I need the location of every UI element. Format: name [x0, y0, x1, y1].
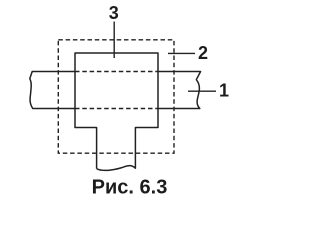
svg-text:2: 2 — [198, 43, 208, 63]
svg-text:3: 3 — [109, 3, 119, 23]
svg-text:1: 1 — [219, 81, 229, 101]
svg-text:Рис. 6.3: Рис. 6.3 — [92, 177, 168, 199]
